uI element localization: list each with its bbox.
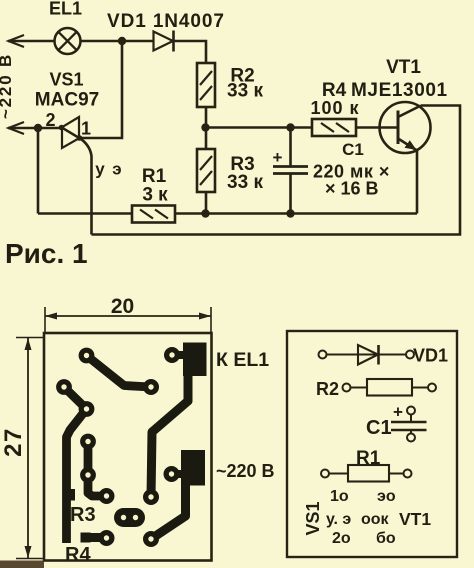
panel diode VD1 symbol (358, 345, 379, 365)
svg-text:Рис. 1: Рис. 1 (5, 238, 88, 269)
wire R1 to emitter rail (175, 212, 417, 215)
bottom-left scan smudge (0, 561, 44, 568)
panel label C1 (366, 417, 392, 439)
panel resistor R1 outline (321, 465, 412, 482)
label VT1 MJE13001 (351, 57, 448, 101)
label R3 33 к (227, 154, 263, 193)
svg-text:1о: 1о (330, 488, 349, 505)
svg-text:VT1: VT1 (399, 509, 431, 529)
svg-text:R2: R2 (316, 379, 339, 399)
svg-text:MAC97: MAC97 (35, 90, 99, 111)
svg-text:VS1: VS1 (49, 70, 83, 90)
svg-text:R3: R3 (70, 504, 96, 526)
pcb stub to pad I (81, 533, 107, 543)
pcb pad B (164, 347, 180, 363)
wire to R1 (38, 212, 132, 215)
wire top mains to lamp (8, 40, 55, 43)
pcb tab K EL1 (172, 343, 207, 377)
pcb pad L (164, 466, 180, 482)
arrow mains top (9, 35, 25, 47)
svg-text:3 к: 3 к (142, 185, 168, 206)
label VS1 MAC97 (35, 70, 99, 111)
pcb pad D (56, 379, 72, 395)
wire triac T1 up to node A (80, 41, 123, 138)
svg-text:× 16 В: × 16 В (325, 179, 379, 199)
wire collector to right rail (92, 106, 461, 235)
svg-text:~220 В: ~220 В (216, 461, 275, 481)
pcb pad J (143, 489, 159, 505)
svg-text:у: у (95, 160, 105, 179)
pcb pad G (80, 467, 96, 483)
pcb trace tab to K (151, 484, 186, 539)
label ~220 В (0, 53, 15, 119)
pcb tab ~220 В (172, 450, 206, 486)
pcb pad C (143, 379, 159, 395)
svg-text:VS1: VS1 (303, 501, 323, 535)
svg-text:~220 В: ~220 В (0, 53, 15, 119)
panel box (287, 331, 457, 557)
svg-text:33 к: 33 к (227, 81, 263, 102)
pcb trace tab to J (151, 374, 188, 497)
dimension 27 (0, 338, 44, 559)
svg-text:С1: С1 (366, 417, 392, 439)
label у э (gate) (95, 160, 121, 179)
svg-text:100 к: 100 к (310, 98, 359, 118)
panel label R2 (316, 379, 339, 399)
svg-text:MJE13001: MJE13001 (351, 80, 448, 101)
dimension 20 (45, 295, 211, 332)
pcb pad F (80, 434, 96, 450)
wire R3 to node E (205, 192, 208, 214)
wire node D down (37, 128, 40, 214)
panel label VS1 rotated (303, 501, 323, 535)
pcb pad A (79, 348, 95, 364)
pcb trace E-left rail (66, 409, 87, 543)
svg-text:+: + (273, 148, 283, 167)
wire triac gate (80, 138, 92, 235)
pcb trace A-C (87, 356, 152, 388)
svg-text:R4: R4 (65, 544, 91, 566)
panel label VD1 (413, 346, 448, 366)
svg-text:эо: эо (377, 488, 396, 505)
svg-text:33 к: 33 к (227, 172, 263, 193)
node B junction dot (201, 123, 209, 131)
pcb trace D-E (64, 387, 87, 409)
pcb pad E (79, 401, 95, 417)
wire node B to R4 (206, 126, 313, 129)
svg-text:1: 1 (81, 119, 91, 139)
node D junction dot (34, 124, 42, 132)
panel pin row 2: у.э оок VT1 (326, 509, 431, 529)
pcb pad H (99, 488, 115, 504)
resistor R1 (132, 206, 175, 223)
panel pin row 3: 2o бo (332, 530, 396, 547)
wire lamp to node A (81, 40, 154, 43)
label R1 3 к (142, 166, 168, 206)
node E junction dot (R3 bottom) (201, 209, 209, 217)
label R3 (board) (70, 504, 96, 526)
svg-text:С1: С1 (342, 140, 364, 159)
svg-text:27: 27 (0, 427, 27, 457)
svg-text:+: + (393, 403, 403, 422)
svg-text:э: э (112, 160, 121, 179)
pin label 2 (45, 110, 55, 130)
panel diode VD1 pin circles and wire (319, 351, 415, 359)
label R4 (board) (65, 544, 91, 566)
pcb trace F-G-H (88, 442, 107, 497)
wire R4 to base (356, 126, 398, 129)
transistor VT1 (380, 102, 431, 153)
svg-text:EL1: EL1 (49, 0, 82, 19)
arrow mains lower (9, 122, 25, 134)
panel pin row 1: 1o эo (330, 488, 396, 505)
label C1 220 мк х 16 В (313, 140, 390, 199)
label ~220 В (board) (216, 461, 275, 481)
svg-text:VD1 1N4007: VD1 1N4007 (107, 11, 225, 32)
capacitor C1 (273, 128, 308, 214)
svg-text:оо: оо (361, 511, 381, 528)
svg-text:2: 2 (45, 110, 55, 130)
svg-text:К EL1: К EL1 (216, 349, 269, 371)
wire emitter down (416, 150, 419, 214)
node A junction dot (118, 37, 126, 45)
panel label R1 (356, 448, 381, 469)
resistor R2 (197, 63, 215, 107)
node F junction dot (C1 bottom) (286, 209, 294, 217)
svg-text:VD1: VD1 (413, 346, 448, 366)
wire node B to R3 (205, 128, 208, 150)
svg-text:20: 20 (111, 295, 134, 318)
svg-text:у. э: у. э (326, 511, 351, 528)
panel capacitor C1 (391, 403, 427, 442)
wire mains lower (8, 127, 62, 130)
pcb pad I (99, 530, 115, 546)
node C junction dot (C1 top) (286, 123, 294, 131)
label EL1 (49, 0, 82, 19)
panel resistor R2 outline (343, 379, 437, 396)
svg-text:2о: 2о (332, 530, 351, 547)
svg-text:VT1: VT1 (386, 57, 421, 78)
board outline (44, 333, 212, 561)
svg-text:бо: бо (376, 530, 396, 547)
label VD1 1N4007 (107, 11, 225, 32)
label R4 100 к (310, 80, 359, 118)
resistor R3 (197, 149, 215, 192)
pin label 1 (81, 119, 91, 139)
label К EL1 (216, 349, 269, 371)
wire R2 to node B (205, 107, 208, 128)
resistor R4 (312, 119, 356, 136)
lamp EL1 (55, 28, 81, 54)
wire diode to R2 (174, 41, 207, 63)
pcb oval pad (114, 508, 145, 527)
caption Рис. 1 (5, 238, 88, 269)
label R2 33 к (227, 66, 263, 102)
diode VD1 (154, 31, 174, 52)
triac VS1 (59, 117, 83, 148)
pcb pad K (143, 531, 159, 547)
svg-text:к: к (381, 511, 390, 528)
